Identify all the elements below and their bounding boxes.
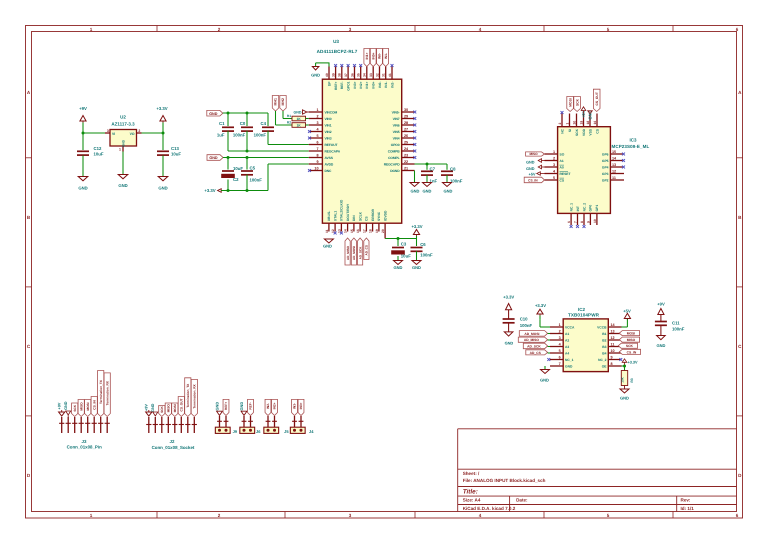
svg-text:VIN4: VIN4 [393, 136, 400, 140]
svg-text:NC_1: NC_1 [565, 358, 574, 362]
J3 pin 2 [66, 417, 71, 433]
svg-text:SCK: SCK [575, 98, 579, 106]
svg-text:2: 2 [138, 129, 140, 133]
svg-text:VIN0: VIN0 [325, 117, 332, 121]
svg-text:7: 7 [559, 362, 561, 366]
junction [426, 163, 429, 166]
svg-text:GPO0: GPO0 [391, 143, 400, 147]
svg-text:R1: R1 [287, 114, 291, 118]
jumper J4 [290, 416, 314, 434]
svg-text:VO: VO [130, 132, 135, 136]
IC3 pin 4 RESET [545, 170, 571, 176]
svg-text:Id: 1/1: Id: 1/1 [681, 506, 695, 511]
J3 pin 7 [98, 417, 103, 433]
capacitor C13 [157, 146, 181, 157]
svg-text:6: 6 [316, 141, 318, 145]
svg-text:33: 33 [369, 73, 373, 77]
svg-text:Termination_TX: Termination_TX [99, 379, 103, 404]
svg-text:A2: A2 [565, 338, 569, 342]
U3 pin 9 AVDD [309, 160, 334, 166]
junction [623, 365, 626, 368]
U3 pin 6 REFOUT [309, 141, 338, 147]
svg-text:16: 16 [593, 121, 597, 125]
svg-text:J4: J4 [309, 429, 314, 434]
svg-text:IOVDD: IOVDD [383, 210, 387, 221]
svg-text:MISO: MISO [79, 402, 83, 411]
U3 top pin 34 IN1+ [363, 67, 369, 89]
regulator U2 AZ1117-3.3 [105, 115, 142, 152]
svg-text:3: 3 [559, 336, 561, 340]
power +3.3V (AVDD rail) [204, 188, 221, 193]
J3 pin 6 [92, 417, 97, 433]
global label SCK [159, 406, 165, 417]
U3 bottom pin 17 CS [362, 216, 368, 233]
global label REF- [248, 399, 254, 415]
U3 pin 7 REGCAPA [309, 147, 341, 153]
svg-text:6: 6 [736, 27, 739, 32]
no-connect right pins 30-23 [413, 111, 416, 114]
U3 bottom pin 13 XTAL2/CLKIO [337, 199, 343, 233]
svg-text:IN0+: IN0+ [372, 81, 376, 88]
svg-text:4: 4 [479, 27, 482, 32]
svg-text:GND: GND [151, 403, 155, 412]
svg-text:C10: C10 [520, 317, 528, 322]
svg-text:GND: GND [657, 343, 666, 348]
ground at pin11 [323, 239, 333, 249]
svg-text:41: 41 [388, 73, 392, 77]
svg-text:19: 19 [579, 121, 583, 125]
wire rail up to AVDD pin9 [267, 164, 269, 191]
svg-text:4: 4 [479, 513, 482, 518]
svg-text:+3.3V: +3.3V [503, 295, 514, 300]
J2 pin 2 [153, 417, 158, 433]
svg-text:CS_IN: CS_IN [92, 400, 96, 410]
power +3.3V at OE [622, 359, 638, 366]
svg-text:C0: C0 [240, 121, 246, 126]
global label AD_MISO [345, 238, 350, 265]
svg-text:GND: GND [526, 167, 535, 171]
svg-text:SCK: SCK [575, 128, 579, 136]
svg-text:26: 26 [404, 134, 408, 138]
capacitor C4 [254, 113, 274, 145]
svg-text:CS: CS [595, 128, 599, 133]
svg-text:7: 7 [573, 221, 577, 223]
capacitor C3 (polarized) [391, 239, 411, 261]
svg-text:8: 8 [611, 362, 613, 366]
U3 pin 25 GPO0 [391, 141, 415, 147]
capacitor C12 [77, 146, 104, 157]
junction [227, 189, 230, 192]
U3 top pin 35 IN2+ [357, 67, 363, 89]
U3 pin 26 VIN4 [393, 134, 415, 140]
IC3 pin 2 A1 [545, 157, 564, 163]
svg-text:13: 13 [611, 330, 615, 334]
svg-text:MCP23S08-E_ML: MCP23S08-E_ML [612, 144, 650, 149]
power +3.3V [156, 106, 167, 133]
svg-text:VIN3: VIN3 [325, 136, 332, 140]
svg-text:SYNC: SYNC [377, 211, 381, 221]
svg-text:+5V: +5V [623, 308, 631, 313]
svg-text:1: 1 [90, 513, 93, 518]
svg-text:2: 2 [316, 115, 318, 119]
junction [246, 156, 249, 159]
svg-text:CS: CS [560, 178, 565, 182]
wire OE node [622, 365, 625, 367]
svg-text:C5: C5 [250, 165, 256, 170]
svg-text:VI: VI [112, 132, 115, 136]
svg-text:10: 10 [611, 349, 615, 353]
svg-text:CS: CS [365, 216, 369, 221]
IC2 pin 13 B1 [602, 330, 621, 336]
wire GND pin7 [544, 366, 546, 370]
svg-text:Sheet: /: Sheet: / [463, 471, 480, 476]
global label MOSI [567, 97, 574, 112]
svg-text:AD_MISO: AD_MISO [346, 245, 350, 260]
global label MH2 [280, 96, 286, 112]
svg-text:6: 6 [736, 513, 739, 518]
U3 pin 27 VIN5 [393, 128, 415, 134]
svg-text:MH1: MH1 [274, 98, 278, 105]
svg-text:1K: 1K [297, 117, 302, 121]
global label AD_SCK [358, 238, 363, 265]
svg-text:IN0-: IN0- [378, 82, 382, 88]
global label IN2- [265, 399, 271, 415]
svg-text:VIN5: VIN5 [393, 130, 400, 134]
IC2 pin 5 A4 [550, 349, 569, 355]
svg-text:7: 7 [316, 147, 318, 151]
svg-text:A1: A1 [565, 332, 569, 336]
svg-text:B4: B4 [602, 351, 606, 355]
IC2 pin 10 B4 [602, 349, 621, 355]
svg-text:+3.3V: +3.3V [156, 106, 167, 111]
J3 pin 5 [85, 417, 90, 433]
U3 pin 30 VIN5- [392, 108, 415, 114]
svg-text:R3: R3 [630, 378, 634, 382]
svg-text:NC: NC [560, 128, 564, 133]
svg-text:GND: GND [214, 402, 219, 411]
U3 pin 2 VIN0 [309, 115, 332, 121]
svg-text:AZ1117-3.3: AZ1117-3.3 [111, 122, 135, 127]
svg-text:VDD: VDD [582, 128, 586, 136]
svg-text:36: 36 [350, 73, 354, 77]
IC3 pin 14 GP5 [602, 157, 623, 163]
IC2 pin 4 A3 [550, 343, 569, 349]
svg-text:C3: C3 [401, 242, 407, 247]
svg-text:6: 6 [559, 356, 561, 360]
IC2 pin 6 NC_1 [550, 356, 574, 362]
svg-text:C6: C6 [420, 242, 426, 247]
svg-text:3: 3 [316, 121, 318, 125]
junction [162, 132, 165, 135]
jumper J6 [240, 416, 261, 434]
U3 pin 22 REGCAPD [384, 160, 415, 166]
junction [227, 112, 230, 115]
svg-text:3: 3 [349, 27, 352, 32]
svg-text:IN0-: IN0- [378, 53, 382, 59]
svg-text:B1: B1 [602, 332, 606, 336]
power +3.3V [411, 224, 422, 239]
svg-text:NC_2: NC_2 [582, 203, 586, 212]
IC3 bottom pin 6 NC_1 [567, 203, 573, 225]
ground [443, 183, 453, 194]
svg-text:B3: B3 [602, 345, 606, 349]
svg-text:AD_CS: AD_CS [365, 245, 369, 256]
svg-text:10uF: 10uF [171, 152, 181, 157]
power +9V at J3.1 [58, 402, 65, 416]
global label MOSI [85, 400, 91, 417]
junction [246, 150, 249, 153]
U3 pin 5 VIN3 [309, 134, 332, 140]
svg-text:5: 5 [607, 27, 610, 32]
global label Termination_RX [191, 379, 197, 416]
svg-text:C: C [738, 344, 742, 349]
svg-text:NC_1: NC_1 [569, 203, 573, 212]
svg-text:GND: GND [394, 265, 403, 270]
power +5V at RESET [529, 172, 545, 177]
svg-text:SO: SO [560, 152, 565, 156]
IC2 pin 7 GND [550, 362, 573, 368]
svg-text:XTAL2/CLKIO: XTAL2/CLKIO [340, 199, 344, 221]
svg-text:1: 1 [559, 323, 561, 327]
svg-text:GND: GND [412, 265, 421, 270]
svg-text:CS_IN: CS_IN [627, 350, 637, 354]
svg-text:SCLK: SCLK [358, 211, 362, 221]
svg-text:10uF: 10uF [401, 254, 411, 259]
svg-text:VIN2: VIN2 [325, 130, 332, 134]
svg-text:+5V: +5V [529, 172, 536, 176]
svg-text:+3.3V: +3.3V [204, 188, 215, 193]
power +3.3V with C10 [503, 295, 514, 320]
svg-text:12: 12 [612, 170, 616, 174]
svg-text:IN2+: IN2+ [273, 402, 277, 409]
ground at J2.2 [151, 403, 158, 416]
IC3 bottom pin 7 INT [573, 206, 579, 225]
U3 pin 29 VIN7 [393, 115, 415, 121]
svg-text:A: A [27, 90, 31, 95]
capacitor C6 [411, 239, 433, 261]
capacitor C1 [217, 113, 234, 151]
svg-text:100nF: 100nF [254, 132, 267, 137]
svg-text:+9V: +9V [657, 302, 665, 307]
svg-text:6: 6 [567, 221, 571, 223]
svg-text:REF+: REF+ [334, 81, 338, 90]
junction [246, 112, 249, 115]
svg-text:IC2: IC2 [578, 307, 586, 312]
junction [246, 189, 249, 192]
svg-text:ERROR: ERROR [371, 208, 375, 221]
no-connect IC3 bottom pins [570, 225, 573, 228]
svg-text:19: 19 [375, 229, 379, 233]
wire REGCAPD pin22 to caps [415, 163, 448, 165]
resistor R1 [287, 114, 309, 121]
svg-text:100nF: 100nF [672, 327, 685, 332]
U3 pin 1 VINCOM [309, 108, 338, 114]
svg-text:SI: SI [568, 129, 572, 132]
wire U2 VO to +3.3V [142, 132, 164, 134]
global label CS_OUT [178, 397, 184, 417]
svg-text:CS_IN: CS_IN [528, 179, 538, 183]
svg-text:10: 10 [593, 219, 597, 223]
global label AD_MOSI [351, 238, 356, 265]
ground [423, 183, 432, 194]
junction [227, 156, 230, 159]
U3 bottom pin 14 DOUT/RDY [344, 203, 350, 233]
svg-text:3: 3 [349, 513, 352, 518]
global label IN0- [377, 49, 383, 67]
global label IN3+ [298, 399, 304, 415]
svg-text:GND: GND [121, 139, 125, 147]
svg-text:37: 37 [344, 73, 348, 77]
global label IN3- [292, 399, 298, 415]
svg-text:31: 31 [382, 73, 386, 77]
svg-text:5: 5 [607, 513, 610, 518]
svg-text:VSS: VSS [588, 128, 592, 135]
svg-text:Title:: Title: [463, 489, 478, 496]
svg-text:12: 12 [611, 336, 615, 340]
capacitor C5 [241, 158, 262, 191]
U3 bottom pin 19 SYNC [375, 211, 381, 233]
svg-text:MOSI: MOSI [173, 404, 177, 412]
capacitor C2 (polarized) [221, 158, 243, 191]
wire +5V to VCCB [626, 319, 628, 327]
IC3 top pin VSS [586, 114, 592, 136]
svg-text:+9V: +9V [145, 404, 149, 411]
no-connect NC_2 [619, 358, 622, 361]
IC3 top pin CS [593, 114, 599, 134]
svg-text:IN1+: IN1+ [365, 52, 369, 59]
ground [394, 261, 403, 271]
U3 top pin 41 IN2- [388, 67, 394, 88]
op-amp U3 AD4111BCPZ-RL7 body [317, 39, 402, 223]
ground at J3.2 [64, 401, 71, 417]
svg-text:9: 9 [586, 221, 590, 223]
svg-text:AVDD: AVDD [325, 162, 334, 166]
svg-text:2: 2 [558, 123, 562, 125]
svg-text:20: 20 [381, 229, 385, 233]
svg-text:2: 2 [218, 513, 221, 518]
svg-text:VCCB: VCCB [597, 325, 607, 329]
svg-text:9: 9 [316, 160, 318, 164]
U3 pin 21 DGND [390, 167, 414, 173]
svg-text:GND: GND [294, 111, 302, 115]
svg-text:IN3+: IN3+ [299, 402, 303, 409]
svg-text:VIN5-: VIN5- [392, 110, 400, 114]
svg-text:35: 35 [357, 73, 361, 77]
svg-text:MOSI: MOSI [86, 402, 90, 410]
svg-text:IN2-: IN2- [390, 82, 394, 88]
svg-text:AD_MOSI: AD_MOSI [352, 246, 356, 260]
IC3 top pin SI [565, 114, 571, 133]
wire MH2 to R1 [282, 111, 284, 119]
svg-text:B: B [27, 215, 31, 220]
svg-text:1: 1 [119, 148, 121, 152]
svg-text:25: 25 [404, 141, 408, 145]
global label REF+ [223, 399, 229, 415]
svg-text:38: 38 [338, 73, 342, 77]
IC3 pin 3 A0 [545, 163, 565, 169]
svg-text:J5: J5 [284, 429, 289, 434]
svg-text:3: 3 [107, 129, 109, 133]
svg-text:8: 8 [316, 154, 318, 158]
resistor R3 [621, 371, 634, 390]
wire C4 to REFOUT pin6 [268, 144, 309, 146]
svg-text:GP5: GP5 [602, 159, 609, 163]
svg-text:B2: B2 [602, 338, 606, 342]
svg-text:SCK: SCK [626, 344, 634, 348]
junction [82, 132, 85, 135]
svg-text:IN3-: IN3- [293, 403, 297, 409]
U3 pin 10 DNC [309, 167, 332, 173]
IC2 pin 1 VCCA [550, 323, 575, 329]
ground [657, 336, 666, 349]
svg-text:VIN7: VIN7 [393, 117, 400, 121]
svg-text:Termination_RX: Termination_RX [105, 380, 109, 405]
svg-text:IC3: IC3 [629, 138, 637, 143]
svg-text:GND: GND [118, 183, 127, 188]
svg-text:AD4111BCPZ-RL7: AD4111BCPZ-RL7 [317, 49, 358, 54]
svg-text:100nF: 100nF [450, 179, 463, 184]
ground [78, 177, 88, 191]
wire MH1 to R2 [275, 111, 277, 125]
global label SCK [72, 403, 78, 417]
svg-text:D: D [738, 473, 742, 478]
jumper J5 [264, 416, 290, 434]
svg-text:AD_MISO: AD_MISO [524, 338, 539, 342]
svg-text:File: ANALOG INPUT Block.kicad: File: ANALOG INPUT Block.kicad_sch [463, 478, 546, 483]
svg-text:+3.3V: +3.3V [628, 360, 638, 364]
ground [410, 183, 420, 194]
svg-text:OE: OE [602, 364, 608, 368]
svg-text:GND: GND [411, 188, 420, 193]
wire C12 to GND [82, 156, 84, 177]
svg-text:B: B [738, 215, 742, 220]
svg-text:C1: C1 [219, 121, 225, 126]
svg-text:9: 9 [611, 356, 613, 360]
svg-text:GP6: GP6 [602, 152, 609, 156]
svg-text:AVSS: AVSS [325, 156, 334, 160]
svg-text:AD_SCK: AD_SCK [527, 345, 541, 349]
svg-text:C: C [27, 344, 31, 349]
svg-text:MISO: MISO [529, 152, 538, 156]
svg-text:GND: GND [78, 186, 87, 191]
power +3.3V at VCCA [535, 303, 546, 319]
ground [158, 177, 168, 191]
svg-text:10K: 10K [621, 376, 625, 382]
svg-text:14: 14 [344, 229, 348, 233]
svg-text:10: 10 [314, 167, 318, 171]
svg-text:3: 3 [553, 163, 555, 167]
svg-text:16: 16 [356, 229, 360, 233]
IC3 MCP23S08-E_ML body [558, 127, 650, 214]
ground [311, 67, 320, 78]
svg-text:29: 29 [404, 115, 408, 119]
J2 pin 7 [185, 417, 190, 433]
svg-text:GND: GND [423, 188, 432, 193]
svg-text:RESET: RESET [560, 172, 571, 176]
jumper J9 [215, 416, 237, 434]
IC2 pin 8 OE [602, 362, 622, 368]
IC3 top pin NC [558, 114, 564, 134]
svg-text:+3.3V: +3.3V [411, 224, 422, 229]
J2 pin 6 [179, 417, 184, 433]
svg-text:AD_CS: AD_CS [530, 351, 542, 355]
capacitor C7 [421, 164, 438, 184]
J2 pin 3 [159, 417, 164, 433]
no-connect IC3 top pin [561, 111, 564, 114]
junction [397, 237, 400, 240]
connector J3 Conn_01x08_Pin [67, 439, 102, 450]
svg-text:1K: 1K [297, 124, 302, 128]
